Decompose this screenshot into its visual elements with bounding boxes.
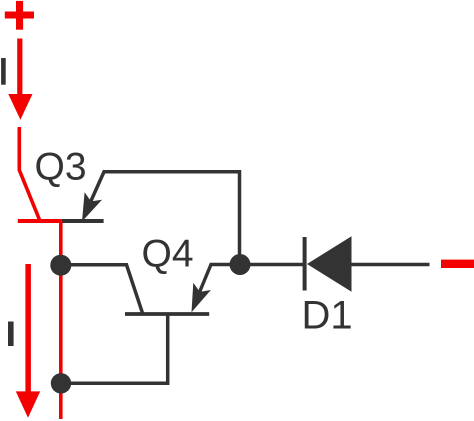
transistor Q3 (base bar, red emitter side) (18, 219, 104, 223)
wire: Q4 emitter from node N1 (with arrowhead into base bar) (192, 265, 241, 313)
svg-text:D1: D1 (302, 294, 353, 338)
plus terminal (+) (5, 1, 34, 30)
svg-text:Q4: Q4 (142, 233, 194, 276)
transistor Q4 (base bar) (125, 312, 209, 316)
label I (bottom current) (8, 322, 14, 347)
node N1 junction dot (230, 254, 251, 275)
node A junction dot (50, 255, 71, 276)
current arrow I (top) (8, 39, 32, 120)
wire: + terminal to Q3 emitter (red) (19, 127, 40, 221)
minus terminal (-) (441, 260, 474, 268)
current arrow I (bottom) (16, 264, 40, 418)
node B junction dot (51, 373, 71, 393)
wire: Q4 base down and left to node B (61, 314, 168, 383)
svg-text:Q3: Q3 (35, 146, 87, 189)
diode D1 (cathode bar + triangle) (303, 236, 352, 291)
wire: node A to Q4 collector (61, 265, 143, 314)
label I (top current) (1, 58, 6, 85)
wire: Q3 base up to node N1 (with arrowhead into base bar) (82, 172, 240, 255)
wire: node N1 to diode D1 (240, 263, 303, 266)
wire: D1 to minus terminal (352, 263, 430, 266)
wire: Q3 collector (red, vertical) (59, 221, 63, 419)
